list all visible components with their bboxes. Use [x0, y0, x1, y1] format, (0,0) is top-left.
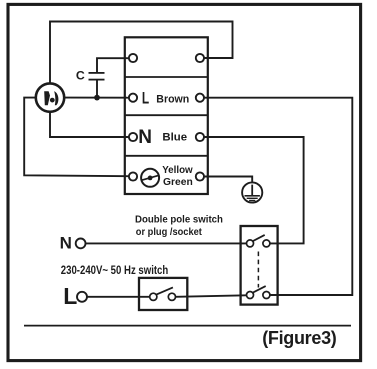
svg-text:Yellow: Yellow: [162, 165, 193, 176]
terminal L-left: [129, 94, 137, 102]
svg-text:Blue: Blue: [162, 132, 187, 144]
wire motor to L terminal: [64, 97, 129, 99]
svg-text:C: C: [76, 69, 85, 83]
wire N-right to double pole switch top: [204, 137, 304, 243]
svg-text:N: N: [138, 127, 152, 148]
junction dot: [94, 95, 100, 101]
capacitor C: [89, 73, 105, 80]
wire L-right to double pole switch bottom: [204, 98, 352, 295]
terminal E-right: [196, 172, 204, 180]
svg-text:Brown: Brown: [156, 93, 189, 105]
svg-text:N: N: [60, 234, 72, 253]
screw terminal symbol: [141, 169, 159, 187]
svg-text:(Figure3): (Figure3): [262, 328, 337, 348]
double pole switch top contact: [247, 235, 270, 247]
wire E-right to earth: [204, 177, 252, 183]
terminal N node: [76, 239, 86, 249]
terminal N-left: [129, 133, 137, 141]
double pole switch bottom contact: [247, 286, 270, 298]
terminal block: [125, 37, 208, 194]
terminal N-right: [196, 133, 204, 141]
switch S1: [150, 287, 176, 300]
wire motor bottom to N terminal: [50, 112, 129, 137]
wire capacitor to junction: [96, 80, 98, 98]
wire N node to double pole switch: [86, 242, 247, 244]
svg-text:Green: Green: [163, 177, 193, 188]
wire motor left loop to E terminal: [24, 98, 129, 177]
switch S1 box: [139, 278, 187, 310]
svg-text:L: L: [63, 283, 77, 309]
terminal top-left: [129, 54, 137, 62]
earth ground symbol: [242, 182, 262, 202]
terminal L-right: [196, 94, 204, 102]
svg-text:Double pole switch: Double pole switch: [135, 214, 223, 225]
terminal L node: [77, 292, 87, 302]
svg-text:or plug /socket: or plug /socket: [136, 226, 203, 238]
svg-text:230-240V~ 50 Hz switch: 230-240V~ 50 Hz switch: [61, 264, 168, 277]
wire switch S1 to double pole switch: [176, 295, 247, 297]
terminal E-left: [129, 172, 137, 180]
wire capacitor to top-left terminal: [97, 58, 129, 73]
wire L node to switch box: [87, 296, 149, 298]
mechanical link dashed: [257, 252, 259, 288]
double pole switch box: [241, 226, 278, 305]
wire top loop: [50, 22, 233, 84]
caption separator line: [24, 325, 351, 327]
motor M: [36, 83, 64, 111]
terminal top-right: [196, 54, 204, 62]
svg-text:L: L: [142, 90, 149, 108]
